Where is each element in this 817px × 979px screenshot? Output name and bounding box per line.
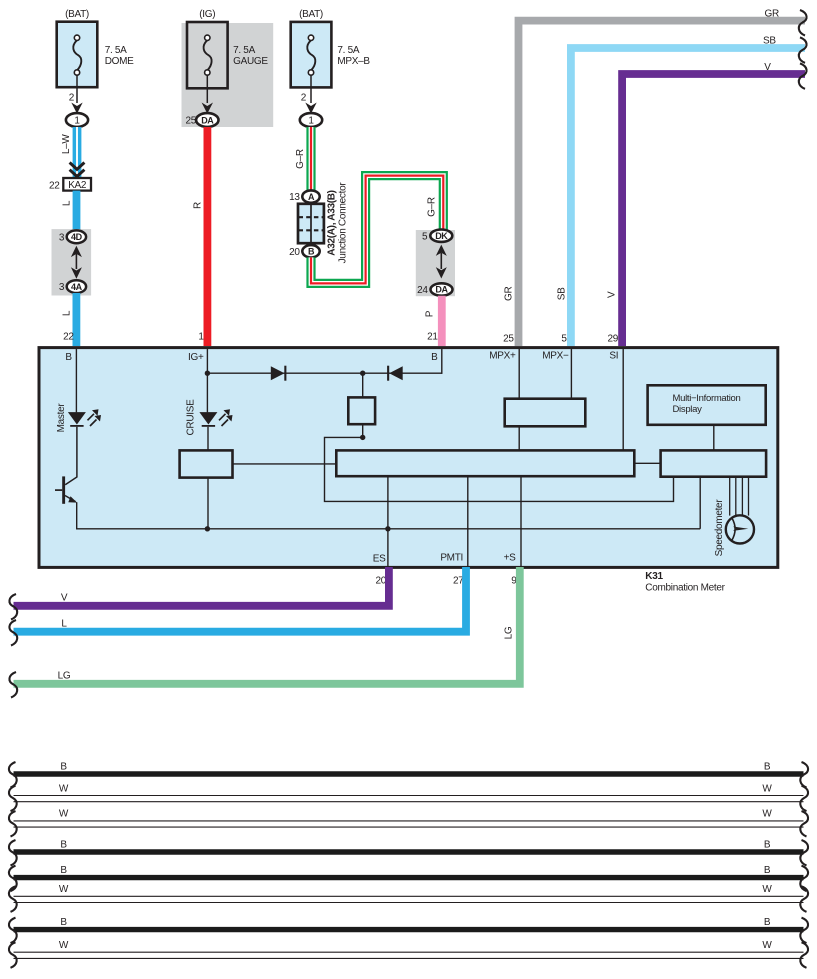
svg-text:W: W bbox=[762, 809, 772, 820]
squiggle row5 right bbox=[800, 866, 808, 892]
multi-information display box bbox=[648, 385, 766, 425]
svg-text:W: W bbox=[59, 809, 69, 820]
svg-text:V: V bbox=[764, 62, 771, 73]
svg-text:4A: 4A bbox=[71, 282, 83, 292]
svg-text:Junction Connector: Junction Connector bbox=[337, 182, 348, 264]
svg-text:7. 5A: 7. 5A bbox=[233, 45, 255, 56]
ground wire B row1 bbox=[14, 761, 804, 774]
speedometer gauge icon bbox=[726, 515, 754, 543]
squiggle row1 left bbox=[9, 762, 17, 788]
svg-text:5: 5 bbox=[422, 231, 428, 242]
squiggle SB right bbox=[799, 37, 807, 63]
svg-text:SB: SB bbox=[763, 36, 776, 47]
svg-text:Master: Master bbox=[56, 403, 67, 433]
squiggle V right bbox=[799, 63, 807, 89]
svg-text:GR: GR bbox=[503, 287, 514, 301]
ground wire B row4 bbox=[14, 839, 804, 852]
connector oval B pin 20 bbox=[289, 245, 320, 258]
svg-text:Multi−Information: Multi−Information bbox=[673, 393, 741, 404]
connector oval A pin 13 bbox=[289, 190, 320, 203]
squiggle row7 left bbox=[9, 918, 17, 944]
svg-text:MPX−: MPX− bbox=[542, 351, 569, 362]
svg-text:DA: DA bbox=[201, 115, 214, 125]
svg-text:LG: LG bbox=[503, 626, 514, 639]
svg-text:24: 24 bbox=[417, 285, 428, 296]
main logic block bbox=[336, 450, 634, 476]
wire fuse MPX-B output bbox=[310, 75, 312, 103]
connector oval 4A bbox=[59, 280, 86, 293]
svg-text:B: B bbox=[764, 917, 771, 928]
svg-text:7. 5A: 7. 5A bbox=[337, 45, 359, 56]
node ES bottom rail bbox=[385, 526, 390, 531]
wire node to square bbox=[362, 373, 364, 397]
wire GR gray bbox=[503, 8, 805, 346]
squiggle GR right bbox=[799, 10, 807, 36]
connector oval DA pin 24 bbox=[417, 283, 452, 296]
svg-text:22: 22 bbox=[63, 332, 74, 343]
wire resistor box to bottom rail bbox=[207, 478, 209, 529]
wire +S vertical bbox=[520, 476, 522, 566]
gray background GAUGE block bbox=[182, 23, 274, 127]
svg-text:B: B bbox=[60, 865, 67, 876]
squiggle row6 left bbox=[9, 886, 17, 912]
svg-text:MPX+: MPX+ bbox=[489, 351, 516, 362]
wire emitter to bottom rail bbox=[77, 502, 701, 529]
diode D1 bbox=[271, 366, 287, 381]
svg-text:22: 22 bbox=[49, 180, 60, 191]
wire Master LED to transistor bbox=[65, 427, 77, 485]
svg-text:Speedometer: Speedometer bbox=[714, 499, 725, 557]
double arrow between DK and DA bbox=[436, 245, 447, 279]
diode D2 bbox=[387, 366, 403, 381]
squiggle row1 right bbox=[800, 762, 808, 788]
wire W row8 bbox=[14, 940, 804, 958]
svg-text:CRUISE: CRUISE bbox=[186, 399, 197, 436]
svg-text:W: W bbox=[59, 940, 69, 951]
squiggle row8 right bbox=[800, 942, 808, 968]
svg-text:SB: SB bbox=[556, 287, 567, 300]
svg-text:2: 2 bbox=[69, 93, 75, 104]
svg-text:3: 3 bbox=[59, 282, 65, 293]
wire pin B21 down bbox=[441, 349, 443, 374]
wire V purple bottom bbox=[14, 567, 389, 606]
wire main block to right block bbox=[634, 462, 660, 464]
svg-text:5: 5 bbox=[561, 334, 567, 345]
connector oval 4D bbox=[59, 230, 86, 243]
arrow down to connector bbox=[71, 103, 82, 114]
wire square to node bbox=[362, 424, 364, 437]
wire G-R routed to DK bbox=[311, 176, 443, 284]
svg-text:MPX–B: MPX–B bbox=[337, 56, 370, 67]
node diode bus bbox=[360, 371, 365, 376]
MPX transceiver box bbox=[505, 399, 586, 427]
svg-text:1: 1 bbox=[308, 116, 314, 127]
svg-text:L: L bbox=[61, 619, 67, 630]
transistor Q1 bbox=[55, 476, 77, 503]
wire W row3 bbox=[14, 809, 804, 827]
wire fuse GAUGE output bbox=[206, 75, 208, 103]
arrow down to connector bbox=[305, 103, 316, 114]
svg-text:B: B bbox=[431, 352, 438, 363]
svg-text:B: B bbox=[764, 865, 771, 876]
wire right block to bottom rail bbox=[699, 477, 701, 529]
svg-text:V: V bbox=[61, 593, 68, 604]
svg-text:25: 25 bbox=[503, 334, 514, 345]
fuse F1 7.5A DOME bbox=[57, 9, 134, 87]
wire ES vertical bbox=[387, 476, 389, 566]
wire V purple bbox=[607, 62, 805, 346]
squiggle row3 left bbox=[9, 811, 17, 837]
svg-text:B: B bbox=[764, 839, 771, 850]
fuse F2 7.5A GAUGE bbox=[187, 9, 268, 88]
svg-text:A32(A), A33(B): A32(A), A33(B) bbox=[326, 190, 337, 255]
svg-text:13: 13 bbox=[289, 192, 300, 203]
svg-text:Display: Display bbox=[673, 404, 703, 415]
square component bbox=[348, 397, 375, 424]
ground wire B row5 bbox=[14, 865, 804, 878]
CRUISE LED bbox=[186, 399, 233, 436]
wire display to right block bbox=[713, 425, 715, 451]
svg-text:B: B bbox=[764, 761, 771, 772]
svg-text:SI: SI bbox=[609, 351, 618, 362]
svg-text:R: R bbox=[192, 202, 203, 209]
svg-text:L: L bbox=[62, 310, 73, 316]
connector oval 1 (DOME) bbox=[66, 113, 88, 127]
wire CRUISE LED to resistor box bbox=[207, 427, 209, 451]
svg-text:B: B bbox=[308, 247, 315, 257]
svg-text:LG: LG bbox=[58, 671, 71, 682]
svg-text:(BAT): (BAT) bbox=[65, 9, 89, 20]
resistor box left bbox=[180, 450, 233, 477]
svg-text:7. 5A: 7. 5A bbox=[105, 45, 127, 56]
squiggle row2 right bbox=[800, 786, 808, 812]
node bottom rail left bbox=[205, 526, 210, 531]
svg-text:+S: +S bbox=[504, 553, 517, 564]
wire W row6 bbox=[14, 884, 804, 902]
svg-text:21: 21 bbox=[427, 332, 438, 343]
wire L blue bottom bbox=[14, 567, 467, 632]
double chevron splice mark bbox=[70, 163, 85, 179]
wire MPX+ pin down bbox=[518, 349, 520, 399]
wire left box to main block bbox=[233, 463, 337, 465]
svg-text:2: 2 bbox=[301, 93, 307, 104]
shield gray box DK/DA bbox=[416, 230, 455, 296]
svg-text:ES: ES bbox=[373, 554, 386, 565]
connector oval DA pin 25 bbox=[185, 113, 218, 127]
svg-text:1: 1 bbox=[198, 332, 204, 343]
svg-text:B: B bbox=[60, 761, 67, 772]
wire PMTI vertical bbox=[467, 476, 469, 566]
svg-text:Combination Meter: Combination Meter bbox=[645, 583, 725, 594]
squiggle row8 left bbox=[9, 942, 17, 968]
svg-text:KA2: KA2 bbox=[68, 180, 87, 191]
squiggle row4 right bbox=[800, 840, 808, 866]
combination meter box K31 bbox=[39, 348, 778, 568]
svg-text:K31: K31 bbox=[645, 571, 663, 582]
squiggle row5 left bbox=[9, 866, 17, 892]
svg-text:G–R: G–R bbox=[426, 197, 437, 217]
svg-text:W: W bbox=[762, 940, 772, 951]
Master LED bbox=[56, 403, 101, 433]
squiggle row4 left bbox=[9, 840, 17, 866]
connector oval 1 (MPX-B) bbox=[300, 113, 322, 127]
svg-text:4D: 4D bbox=[71, 232, 83, 242]
wire L-W blue/white bbox=[61, 127, 77, 178]
svg-text:W: W bbox=[59, 783, 69, 794]
svg-text:DK: DK bbox=[435, 231, 448, 241]
svg-text:PMTI: PMTI bbox=[440, 553, 463, 564]
svg-text:DOME: DOME bbox=[105, 56, 134, 67]
wire SB sky blue bbox=[556, 36, 805, 346]
shield gray box 4D/4A bbox=[52, 229, 92, 295]
wire W row2 bbox=[14, 783, 804, 801]
svg-text:P: P bbox=[424, 310, 435, 317]
fuse F3 7.5A MPX-B bbox=[291, 9, 371, 87]
wire node loop to right block bbox=[325, 437, 674, 501]
svg-text:IG+: IG+ bbox=[188, 352, 204, 363]
wire MPX box to main block bbox=[518, 426, 520, 450]
connector oval DK pin 5 bbox=[422, 230, 452, 243]
svg-text:V: V bbox=[607, 291, 618, 298]
svg-text:L: L bbox=[62, 200, 73, 206]
squiggle LG left bbox=[9, 672, 17, 698]
squiggle row6 right bbox=[800, 886, 808, 912]
squiggle row3 right bbox=[800, 811, 808, 837]
squiggle row7 right bbox=[800, 918, 808, 944]
wire R red bbox=[192, 127, 207, 346]
speedometer wires bbox=[730, 477, 749, 516]
svg-text:G–R: G–R bbox=[295, 149, 306, 169]
svg-text:29: 29 bbox=[607, 334, 618, 345]
node below square bbox=[360, 435, 365, 440]
squiggle row2 left bbox=[9, 786, 17, 812]
squiggle V left bbox=[9, 594, 17, 620]
ground wire B row7 bbox=[14, 917, 804, 930]
svg-text:B: B bbox=[65, 352, 72, 363]
wire pin22 to Master LED bbox=[75, 349, 77, 412]
svg-text:W: W bbox=[762, 783, 772, 794]
wire L blue bbox=[62, 191, 77, 231]
svg-text:B: B bbox=[60, 839, 67, 850]
svg-text:GR: GR bbox=[765, 8, 779, 19]
svg-text:1: 1 bbox=[74, 116, 80, 127]
svg-text:W: W bbox=[762, 884, 772, 895]
wire SI pin down bbox=[622, 349, 624, 450]
diode bus line bbox=[207, 372, 441, 374]
wire LG green bottom bbox=[14, 567, 520, 684]
wire P pink bbox=[424, 296, 441, 346]
wire G-R green/red bbox=[295, 127, 311, 191]
double arrow between 4D and 4A bbox=[71, 246, 82, 279]
junction connector A32/A33 bbox=[298, 182, 348, 264]
squiggle L left bbox=[9, 620, 17, 646]
node IG+ junction bbox=[205, 371, 210, 376]
svg-text:(BAT): (BAT) bbox=[299, 9, 323, 20]
svg-text:A: A bbox=[308, 192, 315, 202]
svg-text:W: W bbox=[59, 884, 69, 895]
svg-text:B: B bbox=[60, 917, 67, 928]
right block bbox=[661, 450, 767, 476]
svg-text:(IG): (IG) bbox=[199, 9, 215, 20]
svg-text:L–W: L–W bbox=[61, 134, 72, 155]
svg-text:3: 3 bbox=[59, 232, 65, 243]
arrow down to connector DA bbox=[202, 103, 213, 114]
wire fuse DOME output bbox=[76, 75, 78, 103]
svg-text:GAUGE: GAUGE bbox=[233, 56, 268, 67]
wire pin IG+ down bbox=[206, 349, 208, 412]
svg-text:DA: DA bbox=[435, 285, 448, 295]
wire L blue to meter bbox=[62, 293, 77, 346]
svg-text:20: 20 bbox=[289, 247, 300, 258]
wire MPX- pin down bbox=[570, 349, 572, 399]
connector KA2 bbox=[49, 178, 91, 191]
